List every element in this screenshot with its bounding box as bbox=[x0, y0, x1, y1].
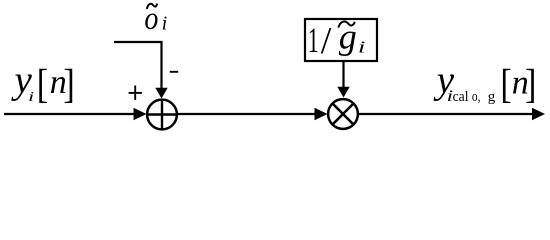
svg-text:]: ] bbox=[525, 61, 536, 107]
wire: o~_i feed line (corner) bbox=[114, 42, 162, 89]
wire: input line into summer bbox=[4, 113, 136, 115]
node label y_i[n] bbox=[11, 59, 75, 107]
svg-text:i: i bbox=[28, 90, 34, 105]
svg-text:i: i bbox=[358, 37, 366, 56]
svg-text:i: i bbox=[162, 13, 167, 34]
minus sign at summer top input bbox=[170, 71, 178, 73]
gain block 1/g~_i bbox=[305, 16, 377, 62]
summing junction (circle with plus) bbox=[147, 100, 177, 130]
wire: summer to multiplier bbox=[177, 113, 317, 115]
svg-text:cal: cal bbox=[453, 89, 469, 105]
wire: gain block to multiplier bbox=[342, 61, 344, 90]
arrowhead into multiplier top bbox=[337, 87, 349, 98]
svg-text:g: g bbox=[488, 89, 496, 105]
plus sign at summer left input bbox=[129, 86, 142, 100]
arrowhead at summer input bbox=[134, 108, 147, 120]
arrowhead at output end bbox=[532, 108, 545, 120]
wire: output line bbox=[358, 113, 535, 115]
multiplier junction (circle with X) bbox=[328, 99, 358, 129]
svg-text:1: 1 bbox=[308, 20, 319, 60]
svg-text:]: ] bbox=[63, 60, 74, 106]
svg-text:[: [ bbox=[500, 61, 511, 107]
arrowhead into summer top bbox=[155, 88, 167, 99]
svg-text:[: [ bbox=[37, 60, 48, 106]
arrowhead at multiplier input bbox=[315, 108, 328, 120]
node label y_ical o, g [n] bbox=[433, 59, 537, 107]
svg-text:o,: o, bbox=[472, 89, 481, 105]
svg-text:/: / bbox=[321, 20, 332, 62]
label o~_i (tilde o sub i) bbox=[144, 1, 167, 37]
